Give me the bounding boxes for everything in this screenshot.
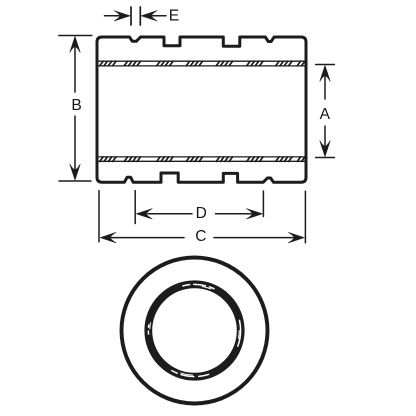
dimension D shafts [148,213,251,215]
front view ring white flecks [148,284,240,376]
dimension C shafts [111,237,293,239]
dimension E arrowheads [114,11,157,21]
dimension D extension lines [135,191,263,224]
dimension C arrowheads [100,232,304,242]
dimension B arrowheads [70,37,80,181]
bottom seal band hatch groups [100,157,314,162]
svg-text:D: D [196,205,207,222]
front view bore ring (annulus) [148,284,240,376]
dimension C extension lines [99,191,305,243]
svg-text:B: B [71,97,81,114]
dimension B shafts [74,46,76,171]
dimension A extension ticks [316,65,335,158]
dimension D arrowheads [136,209,262,219]
bottom seal band rails [98,157,304,161]
dimension B extension ticks [59,36,92,182]
dimension E extension ticks [131,7,140,25]
dimension A arrowheads [320,66,330,157]
svg-text:E: E [169,7,179,24]
svg-text:C: C [195,228,206,245]
dimension A shafts [324,75,326,148]
top seal band hatch groups [100,61,314,66]
bushing body outline (side view) [97,37,306,182]
top seal band rails [98,61,304,66]
svg-text:A: A [320,106,331,123]
front view outer circle [122,258,268,404]
dimension E leader lines [105,15,167,17]
